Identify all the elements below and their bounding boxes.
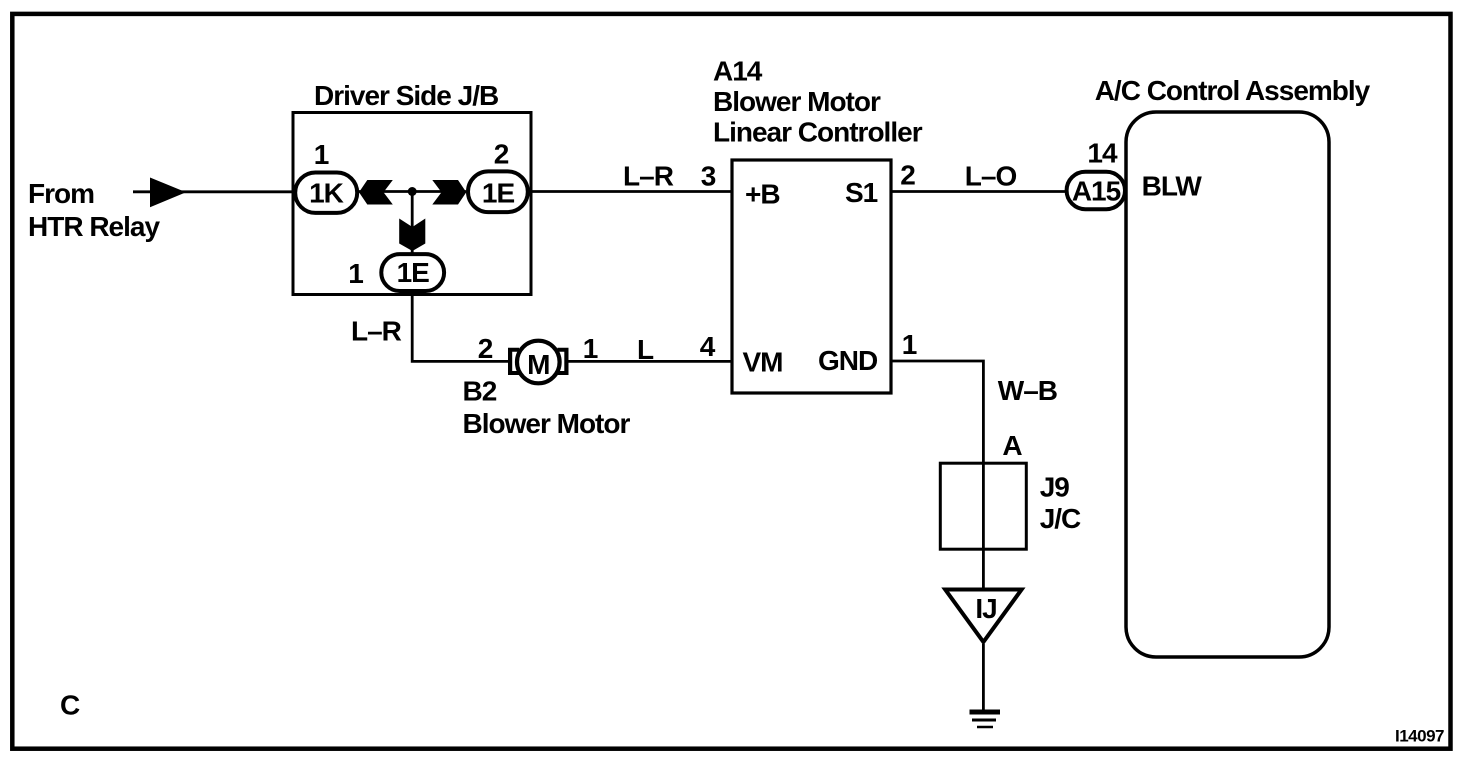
svg-text:Blower Motor: Blower Motor — [713, 86, 881, 117]
A/C Control Assembly box — [1126, 112, 1329, 657]
svg-text:Linear Controller: Linear Controller — [713, 117, 923, 148]
current-flow arrow pointing left — [359, 180, 393, 205]
svg-text:M: M — [527, 349, 549, 380]
svg-text:+B: +B — [745, 179, 780, 210]
svg-text:1E: 1E — [482, 178, 515, 209]
wire from GND to J9 — [891, 361, 983, 588]
connector 1E pin 1 — [381, 254, 444, 291]
svg-text:L: L — [637, 334, 654, 365]
svg-text:From: From — [28, 178, 94, 209]
connector 1E pin 2 — [468, 171, 528, 212]
wire from IJ to ground — [982, 644, 985, 710]
wire from 1E to controller +B — [531, 190, 732, 193]
ground connector IJ triangle — [945, 590, 1021, 643]
junction block Driver Side J/B — [293, 80, 531, 295]
ground symbol — [970, 712, 1001, 727]
wire from dot down to lower 1E — [411, 192, 414, 254]
svg-text:1K: 1K — [309, 178, 344, 209]
svg-text:2: 2 — [494, 139, 509, 170]
svg-text:J/C: J/C — [1040, 503, 1081, 534]
svg-text:BLW: BLW — [1142, 170, 1203, 201]
junction dot — [408, 187, 417, 196]
current-flow arrow pointing down — [399, 219, 425, 252]
wire from S1 to A15 — [891, 190, 1066, 193]
connector A15 — [1067, 172, 1125, 210]
motor B2 label — [463, 376, 631, 439]
svg-text:A/C Control Assembly: A/C Control Assembly — [1095, 75, 1371, 106]
connector 1K — [295, 173, 357, 213]
wire from motor to VM — [568, 360, 732, 363]
svg-text:2: 2 — [478, 333, 493, 364]
controller A14 box — [732, 160, 891, 393]
svg-text:B2: B2 — [463, 376, 497, 407]
junction connector J9 box — [940, 463, 1026, 549]
svg-text:2: 2 — [900, 160, 915, 191]
label From HTR Relay — [28, 178, 160, 242]
svg-text:L–O: L–O — [965, 161, 1017, 192]
svg-text:3: 3 — [701, 161, 716, 192]
svg-text:GND: GND — [818, 345, 878, 376]
wire from 1E pin1 down to blower motor — [412, 293, 509, 361]
svg-text:IJ: IJ — [975, 593, 996, 624]
svg-text:S1: S1 — [845, 177, 878, 208]
svg-text:1E: 1E — [397, 257, 430, 288]
svg-text:W–B: W–B — [998, 375, 1057, 406]
wire from HTR relay — [133, 190, 294, 193]
svg-text:I14097: I14097 — [1395, 727, 1444, 746]
svg-text:C: C — [60, 690, 80, 721]
svg-text:A14: A14 — [713, 56, 763, 87]
wire between 1K and 1E — [359, 190, 466, 193]
svg-text:4: 4 — [700, 331, 716, 362]
svg-text:1: 1 — [902, 329, 917, 360]
current-flow arrow pointing right — [432, 180, 466, 205]
svg-text:14: 14 — [1087, 137, 1118, 168]
svg-text:1: 1 — [348, 258, 363, 289]
svg-text:VM: VM — [743, 347, 783, 378]
svg-text:1: 1 — [583, 333, 598, 364]
svg-text:J9: J9 — [1040, 472, 1070, 503]
J9 J/C label — [1040, 472, 1081, 535]
svg-text:A15: A15 — [1072, 176, 1121, 207]
svg-text:Blower Motor: Blower Motor — [463, 408, 631, 439]
svg-text:1: 1 — [314, 139, 329, 170]
svg-text:A: A — [1002, 430, 1022, 461]
motor B2 — [508, 341, 569, 384]
controller label A14 — [713, 56, 923, 148]
arrow from HTR relay — [150, 178, 186, 208]
svg-text:L–R: L–R — [623, 161, 674, 192]
svg-text:L–R: L–R — [351, 316, 402, 347]
svg-text:Driver Side J/B: Driver Side J/B — [314, 80, 498, 111]
svg-text:HTR Relay: HTR Relay — [28, 211, 160, 242]
